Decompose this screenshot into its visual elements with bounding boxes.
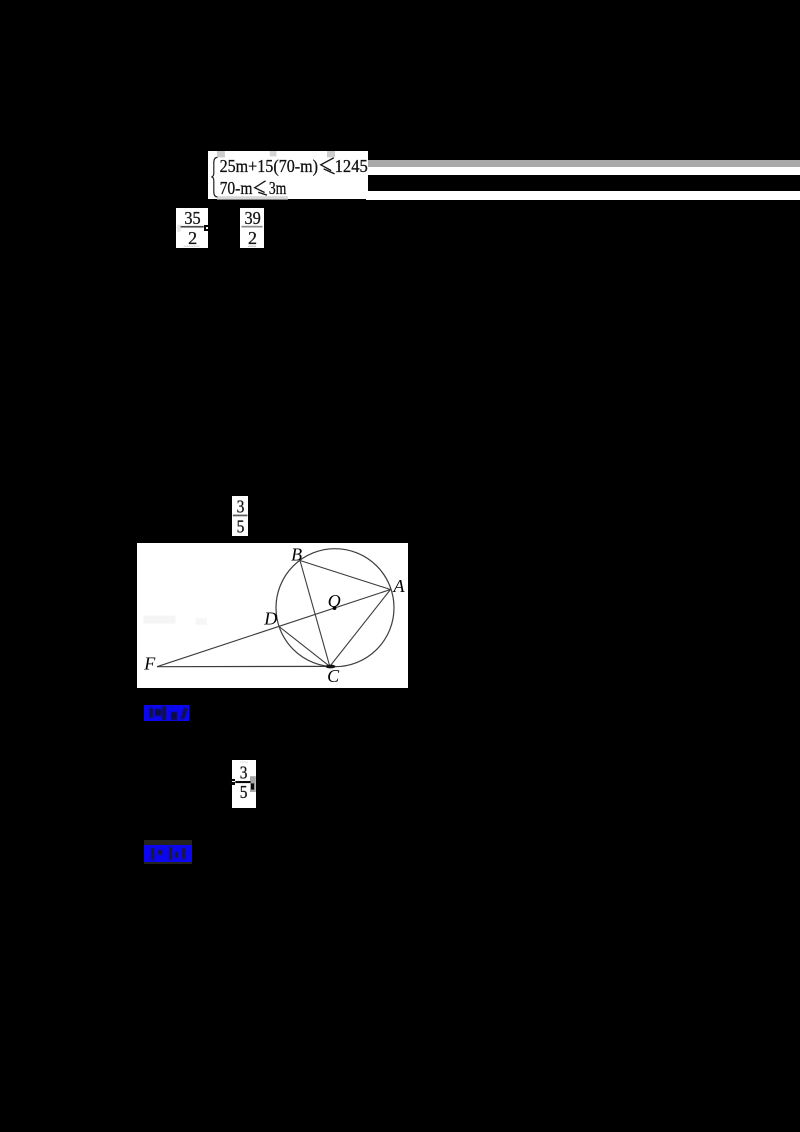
svg-text:2: 2 [188, 228, 197, 248]
faint smudges [143, 615, 175, 623]
leq symbol 2 [255, 180, 267, 194]
gray selection block [250, 776, 256, 792]
chord AC [329, 589, 390, 666]
blue answer tag 1 [144, 705, 189, 721]
svg-text:2: 2 [248, 228, 257, 248]
chord AB [300, 560, 391, 589]
inverted comma mark after 35/2 [204, 225, 209, 232]
center dot O [332, 606, 336, 610]
svg-text:B: B [291, 544, 302, 564]
svg-text:25m+15(70-m): 25m+15(70-m) [220, 156, 318, 177]
equation image box: system of inequalities [208, 151, 368, 200]
svg-text:5: 5 [237, 516, 245, 536]
svg-text:3: 3 [237, 497, 245, 517]
geometry figure image box [137, 543, 409, 688]
fraction 35/2 image box [176, 208, 208, 248]
white bar 2 [366, 191, 800, 199]
chord DC [279, 626, 330, 666]
svg-text:3: 3 [240, 762, 248, 782]
white bar 1 [368, 167, 800, 175]
svg-text:F: F [143, 653, 156, 673]
faint gray remnant blobs [217, 151, 225, 157]
svg-text:D: D [263, 608, 277, 628]
tangent line F-C [157, 665, 330, 667]
svg-text:1245: 1245 [335, 156, 368, 176]
brace { [211, 157, 217, 197]
svg-text:5: 5 [240, 782, 248, 802]
svg-text:C: C [327, 666, 340, 686]
gray highlight bar right of equation [368, 160, 800, 167]
svg-text:35: 35 [184, 208, 200, 228]
svg-text:O: O [327, 591, 340, 611]
blue answer tag 2 [144, 840, 192, 864]
leq symbol 1 [321, 157, 335, 173]
svg-text:39: 39 [245, 208, 261, 228]
fraction 39/2 image box [240, 208, 264, 248]
fraction 3/5 image box (second) with = and , [232, 760, 256, 808]
chord BC [300, 560, 330, 666]
blob at C [325, 664, 335, 668]
fraction 3/5 image box (first) [232, 496, 248, 536]
secant line F-D-A [157, 589, 391, 666]
circle O [276, 548, 394, 666]
svg-text:3m: 3m [269, 178, 286, 198]
= sign fragment left of 3/5 [230, 779, 235, 781]
svg-text:A: A [392, 576, 405, 596]
comma on gray [251, 783, 254, 789]
svg-text:70-m: 70-m [220, 178, 253, 198]
